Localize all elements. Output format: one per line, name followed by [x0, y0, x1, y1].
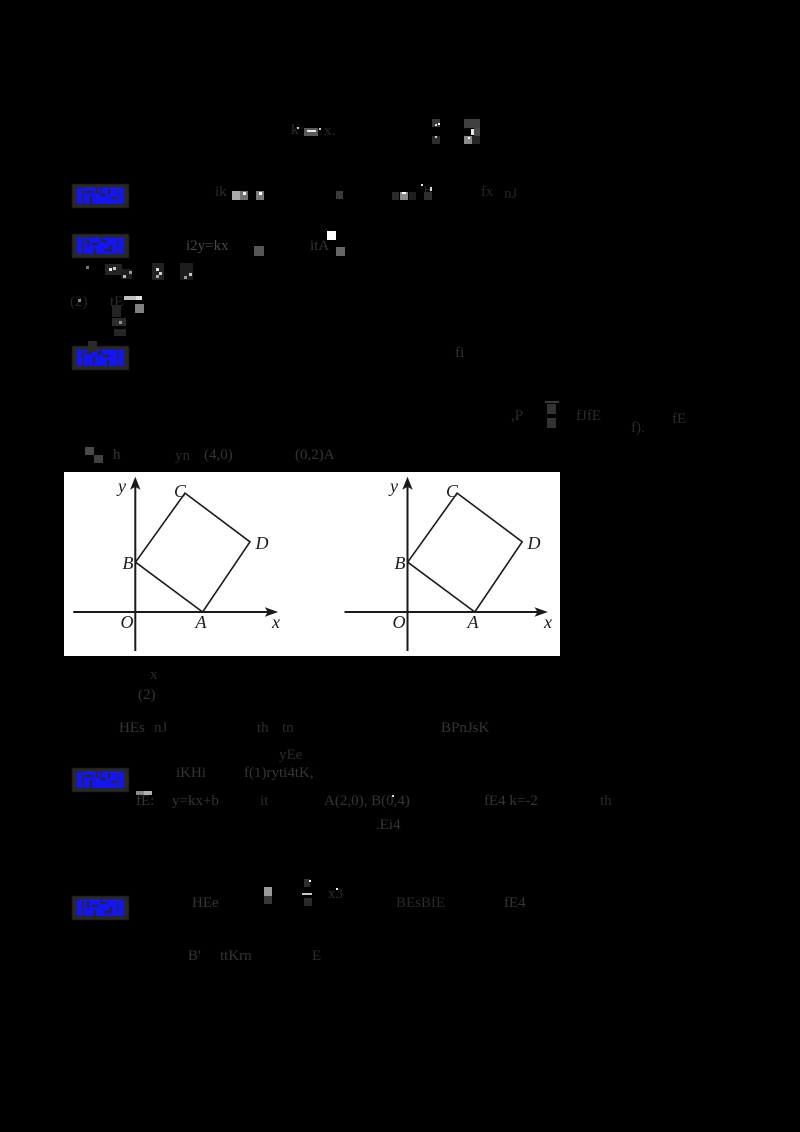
svg-text:A: A	[195, 612, 208, 632]
svg-text:y: y	[388, 476, 398, 496]
svg-text:C: C	[174, 481, 187, 501]
svg-text:D: D	[255, 533, 269, 553]
svg-text:x: x	[271, 612, 280, 632]
svg-text:D: D	[527, 533, 541, 553]
svg-text:A: A	[467, 612, 480, 632]
svg-text:B: B	[395, 553, 406, 573]
svg-text:B: B	[123, 553, 134, 573]
svg-text:O: O	[393, 612, 406, 632]
svg-text:O: O	[121, 612, 134, 632]
svg-text:x: x	[543, 612, 552, 632]
svg-text:C: C	[446, 481, 459, 501]
svg-text:y: y	[116, 476, 126, 496]
